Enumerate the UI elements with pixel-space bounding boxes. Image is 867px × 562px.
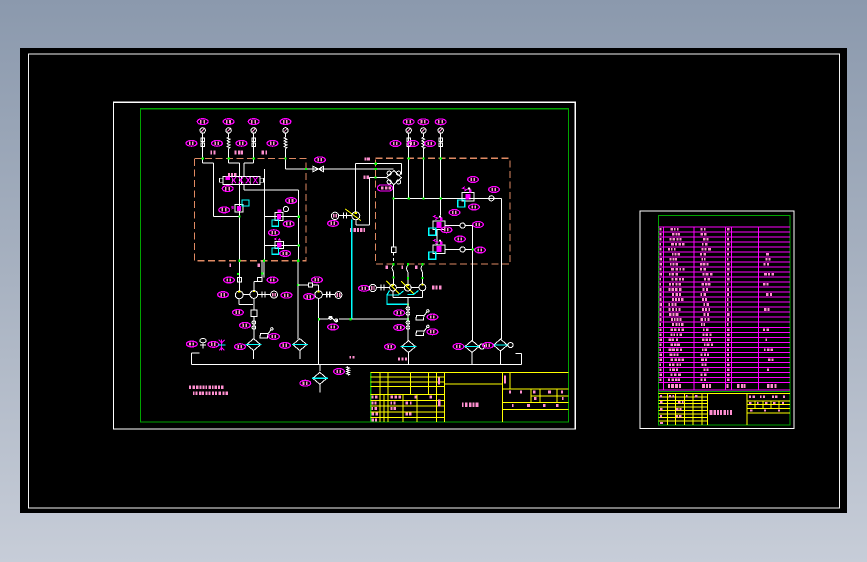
filter F3	[401, 341, 417, 353]
parts list table	[659, 227, 790, 382]
drawing canvas (black)	[20, 48, 847, 513]
square valve top2	[254, 261, 262, 291]
gear pump 1b	[250, 291, 258, 299]
wire F1 drain	[253, 351, 255, 359]
balloon L3 side	[236, 140, 247, 146]
spring / damper	[201, 137, 204, 149]
wire relief A out	[469, 196, 502, 201]
balloon F5	[483, 342, 494, 348]
balloon relief A right	[489, 187, 500, 193]
square valve g2	[309, 283, 313, 287]
parts-list green frame	[659, 216, 790, 426]
parts sheet title block	[659, 393, 790, 425]
balloon relief C top	[455, 236, 466, 242]
balloon g2 inlet	[312, 277, 323, 283]
wire F5 drain	[500, 351, 502, 364]
wire drop v2	[263, 261, 265, 278]
canvas white border	[29, 54, 840, 508]
couplings g3a	[406, 307, 410, 316]
wire drop p3	[421, 264, 423, 284]
balloon reducing valve	[219, 207, 230, 213]
filter F2	[292, 339, 308, 351]
label P<=	[432, 286, 442, 290]
title block texts	[372, 375, 564, 421]
wire gauge channel R3	[440, 133, 442, 198]
wire gauge channel L2	[228, 133, 230, 137]
balloon motor M1	[281, 292, 292, 298]
relief valve C	[429, 239, 445, 259]
parts-list sheet paper border	[640, 211, 794, 429]
unloading valve	[251, 310, 257, 317]
wire gauge channel L3	[253, 133, 255, 137]
balloon L1 top	[197, 119, 208, 125]
title block middle cell	[444, 373, 502, 423]
wire ch2 jog	[229, 162, 240, 164]
port labels under block1	[230, 263, 261, 267]
air breather	[200, 338, 206, 348]
balloon L1 side	[186, 140, 197, 146]
sequence valve 1	[272, 207, 289, 227]
balloon inlet 2	[267, 277, 278, 283]
balloon L4 top	[280, 119, 291, 125]
balloon R3 top	[435, 119, 446, 125]
notes text	[189, 386, 228, 396]
pressure gauge L4	[283, 128, 288, 133]
balloon breather	[186, 341, 197, 347]
wire drop v3	[297, 261, 299, 339]
wire valve block drain	[244, 184, 265, 190]
wire return filter	[319, 364, 321, 371]
wire relief B feed	[440, 198, 442, 215]
variable pump 3b	[401, 281, 414, 294]
check valve CV1	[313, 166, 324, 172]
sequence valve 2	[272, 238, 284, 255]
pump 3c	[419, 284, 426, 291]
junction g2/tank	[318, 318, 320, 320]
shaft main pump	[339, 213, 353, 219]
balloon relief B bottom	[441, 227, 452, 233]
sub-circuit box	[265, 190, 299, 261]
balloon flex	[334, 369, 345, 375]
pressure gauge L2	[226, 128, 231, 133]
wire F2 drain	[299, 351, 301, 359]
wire pilot line	[306, 168, 393, 170]
junction cyan g3	[407, 303, 409, 305]
filter F4	[464, 341, 485, 353]
wire manifold P line	[393, 197, 501, 199]
balloon pump 2	[304, 294, 315, 300]
directional valve block	[220, 173, 264, 184]
balloon seq valve 2 right	[280, 251, 291, 257]
parts sheet divider line	[659, 391, 790, 393]
wire pump feed vertical	[355, 164, 357, 213]
wire bridge left feed	[369, 176, 386, 178]
wire gauge channel R1	[408, 133, 410, 198]
wire pilot vertical	[264, 169, 266, 190]
relief valve B	[429, 215, 445, 235]
spring / damper	[422, 137, 425, 149]
balloon R2 side	[408, 141, 419, 147]
pressure gauge L3	[251, 128, 256, 133]
level gauge	[218, 340, 225, 351]
wire bridge to drain square	[392, 185, 394, 247]
parts list header row	[659, 382, 790, 390]
square valve top1	[237, 278, 241, 283]
balloon motor M0	[328, 221, 339, 227]
balloon L2 side	[212, 140, 223, 146]
balloon R2 top	[418, 119, 429, 125]
balloon F2	[280, 343, 291, 349]
balloon bridge	[377, 185, 392, 191]
label P	[365, 157, 370, 160]
balloon relief A bottom	[469, 204, 480, 210]
wire F4 drop	[472, 226, 474, 341]
motor M3	[369, 284, 376, 291]
balloon level gauge	[208, 342, 219, 348]
gear pump 1a	[235, 291, 243, 299]
balloon sampling 2	[427, 314, 438, 320]
parts sheet small texts	[660, 395, 785, 424]
motor M1	[271, 291, 278, 298]
wire F6 drain	[319, 385, 321, 393]
shaft group3	[376, 285, 390, 291]
balloon F6	[300, 380, 311, 386]
wire relief B out	[445, 223, 473, 228]
wire return line	[319, 318, 408, 320]
check valve bridge	[386, 171, 401, 185]
wire drop v1	[239, 261, 241, 291]
balloon hose union	[328, 324, 339, 330]
wire F3 drain	[408, 353, 410, 365]
sampling valve 2	[416, 310, 429, 320]
wire main vertical v1	[239, 163, 241, 261]
motor M2	[335, 292, 342, 299]
motor M0	[331, 212, 338, 219]
return filter F6	[312, 372, 328, 384]
pressure gauge R2	[421, 128, 426, 133]
manifold block 1 (dashed)	[195, 159, 307, 261]
balloon sampling 3	[427, 329, 438, 335]
manifold block 2 (dashed)	[376, 158, 511, 264]
balloon F4	[453, 344, 464, 350]
balloon relief B top	[449, 210, 460, 216]
variable pump 3a	[386, 281, 399, 294]
balloon L2 top	[223, 119, 234, 125]
balloon L4 side	[267, 140, 278, 146]
wire dashed drain	[392, 253, 394, 265]
wire F5 drop	[501, 198, 503, 338]
filter F1	[246, 339, 262, 351]
balloon motor M3	[359, 285, 370, 291]
tank line	[192, 353, 522, 364]
label on tank line	[398, 358, 407, 361]
balloon valve block	[222, 186, 233, 192]
couplings group1	[252, 321, 256, 330]
junction return/F3	[407, 318, 409, 320]
wire g3 bottom loop	[393, 291, 422, 341]
parts sheet title text	[710, 410, 733, 415]
cyan drain loop g3	[387, 291, 419, 305]
balloon F1	[235, 344, 246, 350]
balloon g3 c2	[394, 325, 405, 331]
junction g2 feed	[297, 284, 299, 286]
junction dots	[202, 157, 442, 275]
wire bridge top loop	[356, 164, 402, 175]
shaft group2	[322, 292, 335, 298]
port labels row L	[211, 151, 268, 155]
spring / damper	[347, 367, 350, 376]
port labels under block2	[386, 266, 418, 269]
junction F4/C	[472, 248, 474, 250]
wire g3 link2	[411, 287, 419, 289]
spring / damper	[439, 137, 442, 149]
wire ch1 jog	[203, 163, 240, 216]
balloon couplings	[240, 322, 251, 328]
spring / damper	[284, 137, 287, 149]
wire g2 feed	[298, 285, 319, 291]
balloon R1 top	[403, 119, 414, 125]
wire gauge channel L1	[202, 133, 204, 137]
wire ch4 to pilot line	[286, 168, 307, 170]
balloon inlet 1	[224, 277, 235, 283]
spring / damper	[227, 137, 230, 149]
title block outer	[371, 373, 569, 423]
label Pr	[364, 176, 370, 179]
label M-REL	[350, 228, 365, 232]
balloon check valve	[315, 157, 326, 163]
wire below unloader	[253, 316, 255, 338]
main sheet green frame	[140, 109, 568, 422]
spring / damper	[407, 137, 410, 149]
wire relief C out	[445, 247, 473, 252]
wire g2 drain	[318, 298, 320, 364]
balloon unloading valve	[233, 310, 244, 316]
balloon g3 c1	[394, 310, 405, 316]
drain node square	[392, 247, 396, 253]
wire relief B-C link	[436, 229, 438, 244]
wire ch3 jog	[244, 163, 254, 176]
couplings g3b	[406, 321, 410, 330]
main sheet paper border	[114, 102, 576, 429]
spring / damper	[252, 137, 255, 149]
wire F4 drain	[471, 352, 473, 364]
wire pump outlet loop	[356, 177, 370, 225]
wire g3 link	[396, 287, 404, 289]
pump 2	[315, 291, 323, 299]
sampling valve 3	[416, 325, 429, 335]
pressure gauge L1	[200, 128, 205, 133]
wire pump link	[243, 294, 250, 296]
hose union	[328, 316, 338, 322]
balloon seq valve 1 top	[286, 198, 297, 204]
wire drop p2	[406, 264, 408, 284]
wire group1 drain	[239, 298, 254, 309]
balloon relief B right	[473, 222, 484, 228]
wire drop p1	[392, 264, 394, 284]
balloon relief A top	[468, 177, 479, 183]
balloon R3 side	[425, 141, 436, 147]
balloon L3 top	[248, 119, 259, 125]
label M	[350, 356, 355, 359]
pressure reducing valve	[232, 200, 249, 212]
sampling valve 1	[260, 328, 273, 338]
junction cyan drain	[349, 318, 351, 320]
balloon R1 side	[390, 141, 401, 147]
title block left grid	[371, 373, 445, 423]
filter F5	[493, 339, 514, 351]
balloon sampling 1	[269, 334, 280, 340]
main pump P0	[345, 209, 361, 221]
balloon pump group1	[218, 292, 229, 298]
wire gauge channel L4	[285, 133, 287, 137]
pressure gauge R3	[438, 128, 443, 133]
title block right grid	[503, 373, 569, 410]
balloon F3	[385, 344, 396, 350]
wire gauge channel R2	[422, 133, 424, 198]
relief valve A	[458, 187, 474, 207]
pressure gauge R1	[406, 128, 411, 133]
cyan drain from pump	[351, 220, 353, 320]
balloon seq valve 1 right	[283, 221, 294, 227]
balloon relief C right	[475, 247, 486, 253]
shaft group1	[258, 292, 271, 298]
balloon seq valve 2 left	[269, 230, 280, 236]
